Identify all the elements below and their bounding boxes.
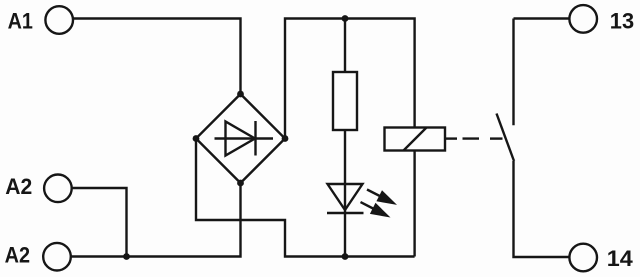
- junction bridge bottom: [237, 180, 244, 187]
- wire A1 to bridge top: [73, 19, 241, 95]
- mechanical link (dashed): [444, 137, 503, 139]
- terminal 14: [569, 244, 597, 272]
- wire bridge left to bottom rail: [196, 139, 415, 257]
- wire A2 bottom to bridge bottom: [71, 183, 241, 257]
- wire bridge right to top rail: [285, 19, 415, 139]
- junction A2 rail: [123, 253, 130, 260]
- contact: fixed upper: [512, 19, 514, 126]
- wire relay bottom to rail: [413, 151, 415, 257]
- wire A2 top to bottom rail: [72, 188, 127, 257]
- svg-text:A1: A1: [8, 9, 33, 34]
- junction resistor top: [342, 15, 349, 22]
- terminal A2 (top): [44, 175, 72, 203]
- junction bridge left: [193, 135, 200, 142]
- svg-text:14: 14: [607, 246, 634, 271]
- resistor: [333, 72, 357, 130]
- LED arrow lower: [361, 202, 391, 217]
- svg-text:13: 13: [610, 9, 634, 34]
- wire resistor branch: [344, 19, 346, 73]
- svg-text:A2: A2: [5, 242, 30, 267]
- terminal 13: [569, 5, 597, 33]
- junction bridge right: [282, 135, 289, 142]
- terminal A2 (bottom): [43, 243, 71, 271]
- bridge rectifier: [196, 94, 285, 183]
- wire contact to 13: [514, 17, 570, 19]
- terminal A1: [45, 6, 73, 34]
- wire resistor to LED: [344, 130, 346, 257]
- LED arrow upper: [367, 190, 397, 205]
- relay coil K1: [385, 128, 446, 151]
- junction LED bottom: [342, 253, 349, 260]
- contact: lever: [497, 114, 515, 162]
- junction bridge top: [237, 91, 244, 98]
- svg-text:A2: A2: [5, 174, 32, 199]
- wire contact lower to 14: [514, 161, 569, 257]
- LED: [327, 184, 364, 213]
